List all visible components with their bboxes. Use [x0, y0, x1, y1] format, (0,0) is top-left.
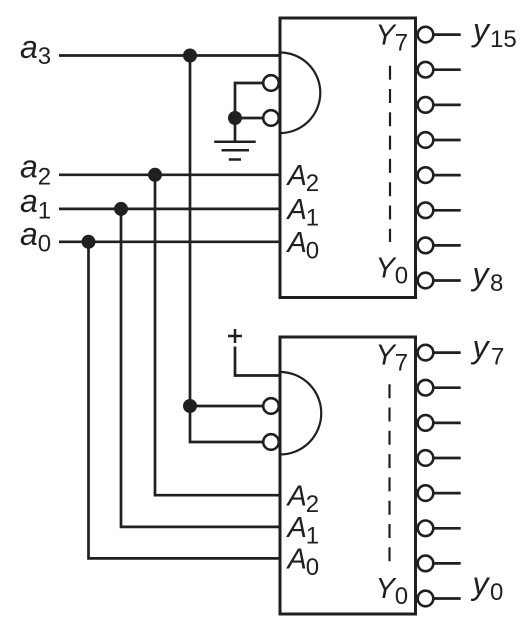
bubble U2 out Y5: [418, 415, 434, 431]
label output y0: [471, 566, 504, 606]
label U2 A0: [286, 544, 320, 581]
label a3: [20, 29, 51, 70]
svg-text:15: 15: [490, 26, 517, 53]
junction dot U1 enable tie: [228, 111, 242, 125]
junction dot a2: [148, 168, 162, 182]
label output y8: [471, 256, 504, 297]
svg-text:7: 7: [491, 344, 504, 371]
bubble U2 out Y4: [418, 450, 434, 466]
svg-text:1: 1: [38, 198, 51, 225]
wire U1 enable loop from upper bubble: [235, 83, 264, 118]
svg-text:a: a: [20, 183, 38, 219]
label U2 A1: [286, 512, 320, 549]
bubble U1 out Y3: [418, 167, 434, 183]
output line U1 pin Y1: [433, 244, 461, 247]
label output y7: [471, 329, 505, 371]
svg-text:A: A: [286, 227, 307, 259]
wire U1 lower enable bubble to junction: [235, 117, 264, 120]
label a1: [20, 183, 51, 225]
svg-text:0: 0: [38, 231, 51, 258]
wire a3 horizontal into U1 enable G1: [59, 54, 279, 57]
bubble U1 enable G2A: [263, 75, 279, 91]
bubble U1 out Y4: [418, 132, 434, 148]
junction dot a3: [183, 49, 197, 63]
svg-text:7: 7: [395, 29, 408, 56]
label U2 Y7: [376, 339, 409, 376]
svg-text:A: A: [286, 160, 307, 192]
bubble U1 out Y1: [418, 238, 434, 254]
svg-text:y: y: [471, 329, 491, 365]
output line U2 pin Y0: [433, 597, 461, 600]
bubble U1 out Y7: [418, 27, 434, 43]
bubble U2 out Y6: [418, 380, 434, 396]
label output y15: [471, 12, 517, 53]
decoder U1 (top 3-to-8 decoder box): [280, 18, 416, 298]
svg-text:2: 2: [38, 164, 51, 191]
output line U1 pin Y5: [433, 104, 461, 107]
svg-text:3: 3: [38, 43, 51, 70]
svg-text:y: y: [471, 256, 491, 292]
enable gate arc of U2: [280, 372, 321, 455]
svg-text:A: A: [286, 481, 307, 513]
svg-text:y: y: [471, 12, 491, 48]
bubble U1 out Y2: [418, 203, 434, 219]
output line U2 pin Y3: [433, 492, 461, 495]
bubble U2 out Y1: [418, 556, 434, 572]
bubble U1 enable G2B: [263, 110, 279, 126]
junction dot a0: [82, 235, 96, 249]
output line U1 pin Y3: [433, 174, 461, 177]
bubble U1 out Y6: [418, 62, 434, 78]
svg-text:a: a: [20, 216, 38, 252]
bubble U1 out Y5: [418, 97, 434, 113]
wire a1 vertical branch down to U2 A1: [121, 209, 279, 527]
output line U2 pin Y5: [433, 422, 461, 425]
Vcc plus sign: [228, 329, 242, 343]
output line U1 pin Y0: [433, 279, 461, 282]
label U2 A2: [286, 481, 320, 518]
label U1 A1: [286, 194, 320, 231]
bubble U2 out Y7: [418, 345, 434, 361]
output line U2 pin Y6: [433, 386, 461, 389]
junction dot U2 enable tie: [183, 399, 197, 413]
label U1 Y7: [376, 20, 409, 57]
svg-text:A: A: [286, 194, 307, 226]
wire a2 vertical branch down to U2 A2: [155, 175, 279, 495]
ground symbol: [214, 142, 256, 160]
svg-text:a: a: [20, 149, 38, 185]
wire a0 horizontal into U1 A0: [59, 240, 279, 243]
wire ground stem: [234, 118, 237, 142]
junction dot a1: [114, 202, 128, 216]
svg-text:0: 0: [395, 263, 408, 290]
label U2 Y0: [376, 573, 409, 610]
Vcc plus stem wire: [235, 347, 279, 376]
label a2: [20, 149, 51, 191]
bubble U2 out Y0: [418, 591, 434, 607]
svg-text:a: a: [20, 29, 38, 65]
output line U1 pin Y6: [433, 68, 461, 71]
label a0: [20, 216, 51, 258]
output line U2 pin Y2: [433, 527, 461, 530]
svg-text:y: y: [471, 566, 491, 602]
bubble U2 out Y3: [418, 485, 434, 501]
svg-text:A: A: [286, 544, 307, 576]
output line U1 pin Y2: [433, 209, 461, 212]
dashed line U1 outputs: [389, 66, 391, 242]
dashed line U2 outputs: [388, 384, 390, 566]
wire a3 vertical branch down to U2 lower enable bubble: [190, 56, 264, 443]
output line U1 pin Y7: [433, 33, 461, 36]
wire a1 horizontal into U1 A1: [59, 208, 279, 211]
bubble U2 enable G2A: [263, 398, 279, 414]
decoder U2 (bottom 3-to-8 decoder box): [280, 337, 416, 614]
svg-text:2: 2: [306, 170, 319, 197]
svg-text:0: 0: [490, 579, 503, 606]
label U1 A2: [286, 160, 320, 197]
svg-text:8: 8: [490, 270, 503, 297]
label U1 Y0: [376, 252, 409, 289]
svg-text:1: 1: [306, 204, 319, 231]
bubble U2 enable G2B: [263, 434, 279, 450]
label U1 A0: [286, 227, 320, 264]
svg-text:0: 0: [306, 237, 319, 264]
svg-text:0: 0: [395, 583, 408, 610]
svg-text:2: 2: [306, 491, 319, 518]
output line U2 pin Y7: [433, 351, 461, 354]
svg-text:A: A: [286, 512, 307, 544]
output line U2 pin Y1: [433, 562, 461, 565]
output line U2 pin Y4: [433, 457, 461, 460]
bubble U2 out Y2: [418, 521, 434, 537]
svg-text:7: 7: [395, 350, 408, 377]
wire a2 horizontal into U1 A2: [59, 173, 279, 176]
bubble U1 out Y0: [418, 273, 434, 289]
wire branch to U2 upper enable bubble: [190, 405, 264, 408]
svg-text:0: 0: [306, 554, 319, 581]
enable gate arc of U1: [280, 53, 320, 134]
output line U1 pin Y4: [433, 139, 461, 142]
wire a0 vertical branch down to U2 A0: [89, 242, 279, 559]
svg-text:1: 1: [306, 522, 319, 549]
